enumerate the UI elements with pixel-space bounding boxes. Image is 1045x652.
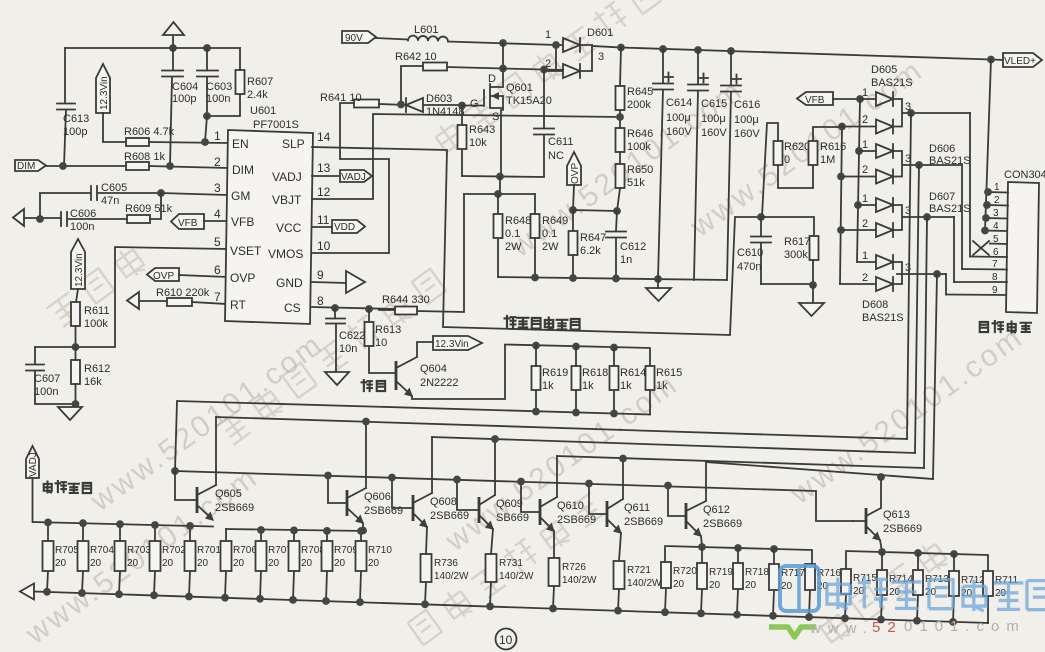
svg-text:C610: C610 (737, 247, 763, 259)
inductor L601 (376, 24, 556, 45)
svg-text:2: 2 (862, 272, 868, 284)
svg-text:R650: R650 (627, 164, 653, 176)
wire collector line A (Q605/Q606) (216, 417, 907, 439)
svg-text:20: 20 (334, 558, 346, 569)
svg-text:BAS21S: BAS21S (929, 155, 971, 167)
svg-text:160V: 160V (701, 127, 727, 139)
svg-text:R704: R704 (90, 545, 114, 556)
wire pin9 to D608-3 (945, 274, 947, 295)
connector CON304 (1004, 169, 1045, 313)
capacitor C616 (electrolytic) (721, 51, 760, 280)
node C603/R607 (203, 112, 211, 120)
flag 12.3Vin (left) (71, 239, 85, 302)
resistor R616 1M (809, 127, 847, 188)
node Q609 base (453, 476, 461, 484)
svg-text:1: 1 (214, 129, 221, 143)
svg-text:0101.com: 0101.com (904, 618, 1026, 635)
node CS/R613 (365, 305, 373, 313)
svg-text:3: 3 (214, 181, 221, 195)
wire SLP net (pin14 to C610/R617 node) (312, 147, 761, 335)
svg-text:20: 20 (268, 558, 280, 569)
resistor R609 51k (125, 193, 173, 223)
capacitor C604 (162, 48, 198, 166)
page number 10 (496, 629, 517, 650)
node R619 top (532, 342, 540, 350)
resistor R731 140/2W (486, 554, 535, 606)
svg-text:SLP: SLP (282, 137, 305, 151)
svg-text:C603: C603 (206, 81, 232, 93)
svg-text:DIM: DIM (232, 163, 254, 177)
svg-text:140/2W: 140/2W (562, 575, 597, 586)
svg-text:2SB669: 2SB669 (883, 523, 922, 535)
svg-text:R642 10: R642 10 (395, 51, 437, 63)
wire riser1 (to Q605/Q606 line) (907, 113, 911, 439)
node R619 bottom (532, 408, 540, 416)
svg-text:9: 9 (992, 285, 998, 296)
svg-text:12.3Vin: 12.3Vin (435, 339, 469, 350)
node C615 top (694, 46, 702, 54)
label 插件 (362, 380, 386, 391)
node Q606 base (324, 472, 332, 480)
transistor Q601 TK15A20 (MOSFET) (462, 43, 552, 175)
svg-text:2: 2 (994, 195, 1000, 206)
resistor R646 100k (616, 128, 654, 164)
resistor R726 140/2W (549, 558, 598, 609)
svg-text:200k: 200k (627, 99, 651, 111)
svg-text:90V: 90V (345, 33, 363, 44)
svg-text:12.3Vin: 12.3Vin (74, 253, 85, 287)
resistor R607 (207, 48, 273, 116)
node R611/R612 (72, 343, 80, 351)
wire C610/R617 bottom (761, 283, 813, 285)
wire emitter rail 1 (R705-R701) (33, 522, 213, 527)
resistor R710 20 (356, 531, 393, 602)
svg-text:RT: RT (230, 298, 246, 312)
resistor R613 10 (365, 309, 402, 373)
svg-text:5: 5 (993, 234, 999, 245)
node R718 top (734, 544, 742, 552)
svg-text:1k: 1k (620, 380, 632, 392)
svg-text:R609 51k: R609 51k (125, 203, 173, 215)
svg-text:20: 20 (90, 558, 102, 569)
svg-text:20: 20 (162, 558, 174, 569)
svg-text:GM: GM (231, 189, 250, 203)
svg-text:VADJ: VADJ (272, 170, 302, 184)
svg-text:20: 20 (745, 580, 757, 591)
svg-text:R710: R710 (368, 545, 392, 556)
svg-text:10k: 10k (469, 137, 487, 149)
node R642/D603 (397, 101, 405, 109)
svg-text:20: 20 (709, 580, 721, 591)
svg-text:1: 1 (994, 182, 1000, 193)
svg-text:D601: D601 (587, 27, 613, 39)
svg-text:R717: R717 (781, 568, 805, 579)
svg-text:C605: C605 (101, 182, 127, 194)
svg-text:100n: 100n (70, 221, 94, 233)
svg-text:R719: R719 (709, 567, 733, 578)
resistor R706 20 (221, 529, 258, 598)
svg-text:2: 2 (862, 218, 868, 230)
wire emitter rail 2 (R706-R710) (226, 529, 366, 531)
node D607-3/riser3 (923, 213, 931, 221)
svg-text:100p: 100p (63, 126, 87, 138)
svg-text:VMOS: VMOS (268, 247, 303, 261)
svg-text:100p: 100p (172, 93, 196, 105)
resistor R714 20 (877, 552, 913, 620)
resistor R720 20 (661, 562, 697, 612)
svg-text:D605: D605 (871, 64, 897, 76)
svg-text:160V: 160V (734, 128, 760, 140)
svg-text:R647: R647 (580, 232, 606, 244)
resistor R711 20 (983, 571, 1019, 623)
svg-text:12: 12 (317, 185, 331, 199)
svg-text:R606 4.7k: R606 4.7k (124, 126, 175, 138)
wire VBJT net (pin12 to R645/R646 junction) (312, 114, 620, 199)
node Q612 base (664, 482, 672, 490)
resistor R709 20 (322, 531, 359, 601)
node source/R648 riser (496, 173, 504, 181)
svg-text:R611: R611 (84, 305, 109, 317)
svg-text:R618: R618 (582, 367, 608, 379)
svg-text:C614: C614 (666, 97, 692, 109)
resistor R611 100k (71, 302, 109, 347)
svg-text:14: 14 (317, 130, 331, 144)
wire C603 to EN (205, 116, 207, 142)
svg-text:BAS21S: BAS21S (871, 77, 913, 89)
svg-text:C622: C622 (339, 330, 365, 342)
X no-connect mark at pin5 (973, 241, 989, 255)
svg-text:R721: R721 (627, 565, 651, 576)
node R713 top (914, 549, 922, 557)
svg-text:C613: C613 (63, 113, 89, 125)
svg-text:100k: 100k (627, 141, 651, 153)
svg-text:C607: C607 (34, 373, 60, 385)
node gnd tap (654, 275, 662, 283)
flag 12.3Vin (top) (96, 64, 126, 142)
resistor R615 1k (646, 366, 683, 415)
node CS/C622 (331, 304, 339, 312)
svg-text:2SB669: 2SB669 (703, 518, 742, 530)
resistor R610 220k (156, 287, 227, 306)
faint diagonal watermarks (texture) (431, 0, 662, 156)
node Q606 emitter on rail2 (359, 527, 367, 535)
svg-text:R702: R702 (162, 545, 186, 556)
svg-text:VFB: VFB (178, 218, 198, 229)
svg-text:R736: R736 (434, 558, 458, 569)
svg-text:2: 2 (862, 114, 868, 126)
svg-text:12.3Vin: 12.3Vin (99, 76, 110, 110)
node R614 top (610, 344, 618, 352)
resistor R705 20 (43, 522, 80, 591)
svg-text:EN: EN (232, 137, 249, 151)
resistor R617 300k (761, 217, 819, 285)
svg-text:C615: C615 (701, 98, 727, 110)
svg-text:R615: R615 (656, 367, 682, 379)
pin stubs 1-9 (946, 182, 1008, 296)
node C603 top (203, 44, 211, 52)
svg-text:G: G (470, 98, 479, 110)
svg-text:R718: R718 (745, 567, 769, 578)
transistor Q612 2SB669 (668, 462, 742, 546)
svg-text:VADJ: VADJ (341, 172, 366, 183)
svg-text:R613: R613 (375, 324, 401, 336)
wire GM to pin3 (161, 193, 227, 195)
svg-text:CON304: CON304 (1004, 169, 1045, 181)
ground (below R612) (58, 407, 82, 420)
svg-text:100n: 100n (206, 93, 230, 105)
node R614 bottom (610, 410, 618, 418)
svg-text:2W: 2W (505, 241, 522, 253)
svg-text:7: 7 (992, 259, 998, 270)
svg-text:R731: R731 (499, 558, 523, 569)
svg-text:8: 8 (992, 272, 998, 283)
capacitor C614 (electrolytic) (653, 49, 692, 279)
wire riser2 (to Q608/Q609 line) (915, 165, 919, 453)
svg-text:R644 330: R644 330 (382, 294, 430, 306)
svg-text:Q609: Q609 (496, 498, 523, 510)
flag VFB (sense) (797, 92, 860, 106)
svg-text:U601: U601 (250, 105, 276, 117)
svg-text:R607: R607 (247, 76, 273, 88)
svg-text:CS: CS (284, 301, 301, 315)
node R645 top (617, 44, 625, 52)
svg-text:VSET: VSET (230, 244, 262, 258)
svg-text:OVP: OVP (230, 271, 255, 285)
svg-text:BAS21S: BAS21S (929, 203, 971, 215)
svg-text:10: 10 (375, 337, 387, 349)
resistor R619 1k (532, 346, 569, 412)
svg-text:52: 52 (872, 619, 903, 636)
resistor R606 4.7k (124, 126, 227, 146)
node D605-3/riser1 (907, 109, 915, 117)
svg-text:Q611: Q611 (624, 502, 650, 514)
svg-text:D: D (488, 73, 496, 85)
wire VMOS gate-drive net (pin10 to R641) (312, 103, 389, 253)
transistor Q611 2SB669 (589, 459, 663, 562)
resistor R701 20 (185, 526, 222, 597)
node pin4 (981, 227, 989, 235)
svg-text:20: 20 (55, 558, 67, 569)
resistor R614 1k (610, 348, 647, 414)
resistor R717 20 (769, 549, 805, 616)
diode D605 pair BAS21S (842, 64, 970, 134)
capacitor C612 1n (606, 211, 646, 279)
node Q613 collector on line D (877, 473, 885, 481)
svg-text:20: 20 (368, 558, 380, 569)
svg-text:10: 10 (317, 239, 331, 253)
svg-text:R643: R643 (469, 124, 495, 136)
svg-text:C604: C604 (172, 81, 198, 93)
wire pin7 to D606-3 (961, 165, 963, 269)
ground (below R617) (799, 285, 824, 316)
node gate/R643 (458, 102, 466, 110)
resistor R648 0.1 2W (494, 194, 532, 277)
resistor R716 20 (805, 564, 841, 617)
svg-text:1k: 1k (582, 380, 594, 392)
svg-text:20: 20 (673, 579, 685, 590)
svg-text:OVP: OVP (153, 271, 174, 282)
resistor R642 10 (395, 51, 503, 104)
diode D608 pair BAS21S (840, 250, 946, 324)
svg-text:300k: 300k (784, 249, 808, 261)
transistor Q608 2SB669 (392, 437, 469, 554)
wire drain node to C611/D601-2 (503, 69, 563, 71)
svg-text:0: 0 (784, 154, 790, 166)
resistor R718 20 (733, 548, 769, 615)
svg-text:470n: 470n (737, 261, 761, 273)
node drain top (499, 39, 507, 47)
node R712 top (950, 550, 958, 558)
svg-text:1k: 1k (542, 380, 554, 392)
diode D606 pair BAS21S (841, 139, 971, 184)
resistor R704 20 (78, 523, 115, 593)
svg-text:R703: R703 (127, 545, 151, 556)
svg-text:20: 20 (127, 558, 139, 569)
svg-text:11: 11 (317, 213, 330, 227)
svg-text:1: 1 (862, 250, 868, 262)
svg-text:R648: R648 (505, 215, 531, 227)
ground (main bus) (646, 279, 671, 301)
svg-text:100μ: 100μ (666, 112, 691, 124)
svg-text:6: 6 (993, 247, 999, 258)
node C605 drop (36, 215, 44, 223)
svg-text:2SB669: 2SB669 (430, 510, 469, 522)
svg-text:1: 1 (545, 29, 551, 41)
svg-text:16k: 16k (84, 376, 102, 388)
node SLP/C610/R617 (757, 213, 765, 221)
svg-text:Q612: Q612 (703, 504, 730, 516)
svg-text:Q606: Q606 (364, 491, 391, 503)
IC U601 PF7001S (214, 105, 331, 324)
wire riser4 (to Q612/Q613 line) (933, 274, 937, 479)
wire VLED drop to pins 1-4 (985, 60, 991, 232)
node Q613 emitter on rail4 (878, 548, 886, 556)
resistor R643 10k (458, 106, 496, 177)
svg-text:2: 2 (214, 155, 221, 169)
resistor R712 20 (949, 554, 985, 622)
wire VSET net (35, 247, 227, 347)
svg-text:20: 20 (925, 587, 937, 598)
transistor Q604 2N2222 (396, 342, 505, 399)
flag VADJ (pin13) (312, 170, 372, 183)
node GM (157, 189, 165, 197)
svg-text:2W: 2W (542, 241, 559, 253)
svg-text:1: 1 (862, 193, 868, 205)
node pin2 (983, 201, 991, 209)
svg-text:R641 10: R641 10 (320, 92, 362, 104)
wire 1k bottom rail to base bus (175, 401, 650, 471)
svg-text:VLED+: VLED+ (1004, 56, 1036, 67)
svg-text:DIM: DIM (17, 161, 35, 172)
svg-text:R616: R616 (820, 141, 846, 153)
svg-text:R614: R614 (620, 367, 646, 379)
node bus/1k-rail (171, 467, 179, 475)
svg-text:6: 6 (214, 263, 221, 277)
svg-text:100k: 100k (84, 318, 108, 330)
svg-text:20: 20 (781, 581, 793, 592)
resistor R703 20 (115, 524, 152, 594)
flag VLED+ output (1003, 53, 1042, 67)
svg-text:51k: 51k (627, 177, 645, 189)
node D607-1 (854, 201, 862, 209)
node R647 bottom (569, 274, 577, 282)
svg-text:2: 2 (862, 164, 868, 176)
svg-text:D606: D606 (929, 143, 955, 155)
wire 1k top rail (505, 345, 650, 367)
resistor R641 10 (320, 92, 406, 108)
flag VDD (pin11) (312, 220, 365, 233)
node R618 bottom (572, 409, 580, 417)
svg-text:C612: C612 (620, 241, 646, 253)
svg-text:2SB669: 2SB669 (364, 505, 403, 517)
capacitor C605 47n (40, 182, 161, 219)
svg-text:47n: 47n (101, 195, 119, 207)
svg-text:R612: R612 (84, 363, 110, 375)
wire source node (462, 176, 544, 177)
page arrow left (RT) (127, 292, 167, 309)
transistor Q610 2SB669 (521, 456, 596, 558)
node DIM/C604 (166, 162, 174, 170)
resistor R608 1k (124, 151, 227, 170)
label 电流设置 (44, 481, 91, 493)
svg-text:VFB: VFB (805, 95, 825, 106)
wire base bus (175, 471, 853, 521)
svg-text:10: 10 (499, 633, 513, 647)
svg-text:R706: R706 (233, 545, 257, 556)
svg-text:D607: D607 (929, 191, 955, 203)
flag DIM input (15, 160, 126, 172)
diode D603 1N4148 (406, 93, 465, 118)
capacitor C603 (197, 48, 232, 116)
power symbol (up triangle) (163, 22, 184, 48)
svg-text:R726: R726 (562, 562, 586, 573)
node Q606 collector on line A (362, 418, 370, 426)
svg-text:C611: C611 (548, 136, 573, 148)
capacitor C606 100n (61, 208, 127, 233)
node C614 top (659, 45, 667, 53)
resistor R708 20 (289, 530, 326, 600)
flag 90V input (342, 31, 376, 44)
svg-text:0.1: 0.1 (542, 228, 557, 240)
node R618 top (572, 343, 580, 351)
wire OVP row (573, 210, 617, 211)
node D601-2 anode tap (552, 41, 560, 49)
node C616 top (727, 47, 735, 55)
svg-text:140/2W: 140/2W (434, 571, 469, 582)
resistor R650 51k (616, 164, 654, 211)
svg-text:Q605: Q605 (215, 488, 242, 500)
svg-text:R645: R645 (627, 86, 653, 98)
svg-text:140/2W: 140/2W (627, 578, 662, 589)
svg-text:20: 20 (301, 558, 313, 569)
node Q608 base (388, 474, 396, 482)
svg-text:20: 20 (233, 558, 245, 569)
page arrow left (bottom bus) (20, 584, 34, 600)
capacitor C611 NC (534, 70, 573, 177)
svg-text:100μ: 100μ (701, 113, 726, 125)
node R717 top (770, 545, 778, 553)
svg-text:9: 9 (317, 268, 324, 282)
node C611 top (540, 66, 548, 74)
svg-text:C616: C616 (734, 99, 760, 111)
svg-text:R705: R705 (55, 545, 79, 556)
wire riser3 (to Q610/Q611 line) (924, 217, 927, 468)
node D607-2 (837, 226, 845, 234)
svg-text:2SB669: 2SB669 (215, 502, 254, 514)
node D606-3/riser2 (915, 161, 923, 169)
node drain/R642 (499, 65, 507, 73)
node D605-2/R616 (838, 123, 846, 131)
